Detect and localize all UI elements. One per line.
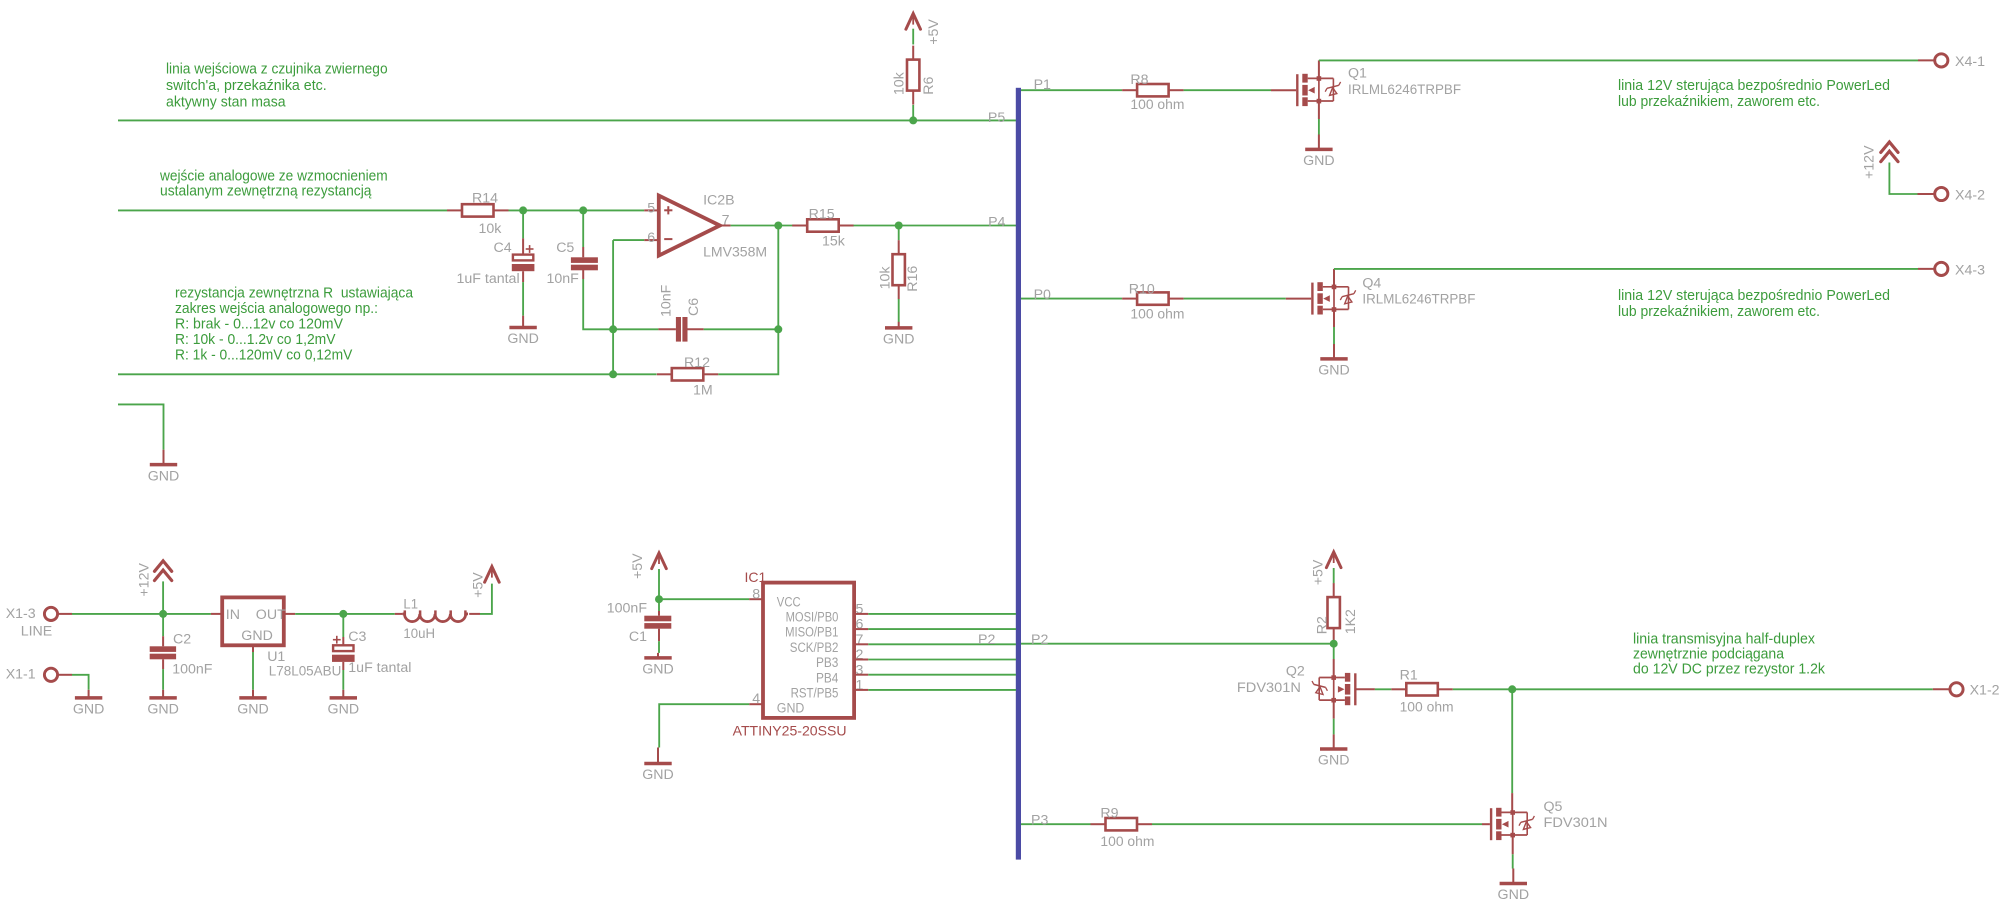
svg-text:aktywny stan masa: aktywny stan masa [166, 93, 286, 110]
svg-text:R10: R10 [1129, 281, 1155, 297]
svg-text:1M: 1M [693, 382, 713, 398]
resistor R14 [447, 191, 509, 237]
svg-text:GND: GND [642, 662, 674, 678]
wire R1 to X1-2 [1453, 688, 1950, 690]
svg-text:L1: L1 [403, 597, 418, 613]
svg-text:rezystancja zewnętrzna R usta: rezystancja zewnętrzna R ustawiająca [175, 285, 414, 302]
svg-text:ATTINY25-20SSU: ATTINY25-20SSU [733, 723, 847, 739]
ground under C1 [642, 653, 674, 678]
wire R8 to Q1 gate [1184, 89, 1297, 91]
wire C2 top leg [162, 614, 164, 646]
svg-text:X1-1: X1-1 [6, 667, 36, 683]
wire R16 top leg [898, 226, 900, 241]
net label P1 [1034, 77, 1051, 93]
svg-text:100nF: 100nF [172, 662, 213, 678]
connector X1-2 [1950, 683, 2000, 699]
wires IC1 pins 5,6,7,2,3,1 to bus [854, 614, 1016, 690]
voltage regulator U1 [222, 597, 341, 679]
wire +12V stem [162, 581, 164, 614]
wire net R12 line [118, 373, 657, 375]
svg-text:Q1: Q1 [1348, 66, 1367, 82]
annotation: 12V line description middle [1618, 287, 1890, 320]
svg-text:7: 7 [856, 632, 864, 648]
wire R6 bottom leg [912, 105, 914, 121]
transistor Q1 [1297, 66, 1461, 107]
svg-text:10k: 10k [479, 221, 503, 237]
supply +5V at C1 [630, 553, 667, 579]
svg-text:100 ohm: 100 ohm [1130, 97, 1184, 113]
svg-text:GND: GND [148, 468, 180, 484]
wire C5 bottom leg to feedback node [583, 269, 613, 330]
svg-text:C1: C1 [629, 629, 647, 645]
wire C1 bottom leg [658, 629, 660, 653]
wire VCC pin 8 [659, 598, 763, 600]
net label P3 [1031, 812, 1048, 828]
svg-text:1K2: 1K2 [1343, 609, 1359, 634]
junction at C2 tap [159, 610, 167, 618]
bus vertical [1016, 88, 1021, 860]
transistor Q4 [1312, 275, 1475, 314]
wire IC1 pin 4 to ground [659, 704, 763, 747]
svg-text:RST/PB5: RST/PB5 [791, 686, 839, 702]
transistor Q5 [1491, 799, 1607, 840]
net label P5 [988, 110, 1005, 126]
capacitor C2 [150, 632, 213, 678]
svg-text:P0: P0 [1034, 287, 1051, 303]
wire Q4 source leg [1333, 310, 1335, 344]
annotation: 12V line description top [1618, 77, 1890, 110]
wire junction to Q5 drain [1511, 689, 1513, 812]
svg-text:5: 5 [647, 201, 655, 217]
ground under Q4 [1318, 344, 1350, 379]
svg-text:R12: R12 [684, 355, 710, 371]
svg-text:X1-2: X1-2 [1970, 683, 2000, 699]
svg-text:R: 10k - 0...1.2v co 1,2mV: R: 10k - 0...1.2v co 1,2mV [175, 331, 336, 348]
connector X1-1 [6, 667, 58, 683]
wire Q5 source leg [1512, 836, 1514, 869]
wire +5V to VCC [658, 569, 660, 599]
supply +5V above R2 [1310, 552, 1341, 585]
wire net P2 right of bus [1021, 643, 1334, 645]
wire C1 top leg [658, 599, 660, 616]
net label P0 [1034, 287, 1051, 303]
wire C3 top leg [342, 614, 344, 645]
wire Q4 drain to X4-3 [1334, 269, 1935, 287]
svg-text:+12V: +12V [1861, 145, 1877, 179]
svg-text:2: 2 [856, 647, 864, 663]
annotation: external resistance description [175, 285, 414, 364]
svg-text:FDV301N: FDV301N [1237, 680, 1301, 696]
wire net P5 [118, 119, 1016, 121]
wire X1-3 to U1 IN [59, 613, 223, 615]
svg-text:Q2: Q2 [1286, 664, 1305, 680]
wire R9 to Q5 gate [1152, 823, 1490, 825]
wire R6 top leg [912, 29, 914, 45]
svg-text:100 ohm: 100 ohm [1130, 307, 1184, 323]
svg-text:15k: 15k [822, 234, 846, 250]
ground under Q5 [1498, 869, 1530, 904]
svg-text:X4-3: X4-3 [1955, 263, 1985, 279]
svg-text:1uF tantal: 1uF tantal [457, 271, 520, 287]
svg-text:LMV358M: LMV358M [703, 244, 767, 260]
svg-text:100 ohm: 100 ohm [1400, 700, 1454, 716]
wire Q1 drain to X4-1 [1319, 60, 1935, 78]
svg-text:GND: GND [1318, 363, 1350, 379]
svg-text:C5: C5 [556, 240, 574, 256]
wire C4 top leg [522, 210, 524, 254]
wire R16 bottom leg [898, 299, 900, 322]
connector X4-1 [1935, 54, 1985, 70]
svg-text:L78L05ABU: L78L05ABU [269, 663, 342, 679]
svg-text:Q5: Q5 [1544, 799, 1563, 815]
svg-text:GND: GND [1498, 887, 1530, 903]
svg-text:OUT: OUT [256, 607, 286, 623]
svg-text:5: 5 [856, 602, 864, 618]
wire R14 to op-amp pin 5 [509, 209, 645, 211]
svg-text:GND: GND [73, 702, 105, 718]
svg-text:8: 8 [752, 587, 760, 603]
svg-text:GND: GND [241, 628, 273, 644]
wire X1-1 to ground [59, 675, 89, 690]
svg-text:C2: C2 [173, 632, 191, 648]
wire stub to ground mid-left [118, 404, 164, 449]
wire R10 to Q4 gate [1184, 298, 1312, 300]
wire net P0 [1021, 298, 1122, 300]
wire R15 to bus P4 [854, 225, 1017, 227]
capacitor C5 [547, 240, 598, 287]
junction on P5 below R6 [909, 116, 917, 124]
op-amp IC2B [644, 192, 767, 260]
svg-text:R: brak - 0...12v co 120mV: R: brak - 0...12v co 120mV [175, 316, 343, 333]
wire R12 to output node corner [718, 226, 778, 375]
svg-text:1uF tantal: 1uF tantal [348, 660, 411, 676]
svg-text:100 ohm: 100 ohm [1100, 834, 1154, 850]
svg-text:GND: GND [883, 332, 915, 348]
svg-text:GND: GND [237, 702, 269, 718]
svg-text:C6: C6 [686, 298, 702, 316]
wire U1 GND leg [252, 645, 254, 690]
svg-text:C3: C3 [348, 629, 366, 645]
capacitor C6 [658, 284, 702, 341]
wire C4 bottom leg [522, 271, 524, 316]
wire C6 right leg [688, 328, 779, 330]
wire +5V to R2 [1333, 568, 1335, 583]
svg-text:GND: GND [1318, 753, 1350, 769]
svg-text:IRLML6246TRPBF: IRLML6246TRPBF [1348, 82, 1461, 98]
annotation: input line description [166, 60, 388, 110]
ground under Q1 [1303, 135, 1335, 170]
svg-text:linia 12V sterująca bezpośredn: linia 12V sterująca bezpośrednio PowerLe… [1618, 287, 1890, 304]
svg-text:R15: R15 [809, 207, 835, 223]
ground at mid-left stub [148, 450, 180, 485]
supply +12V left [137, 561, 172, 597]
svg-text:10nF: 10nF [547, 271, 580, 287]
svg-text:GND: GND [507, 331, 539, 347]
junction at C5 tap [579, 206, 587, 214]
svg-text:X4-2: X4-2 [1955, 188, 1985, 204]
svg-text:R1: R1 [1400, 667, 1418, 683]
annotation: analog input description [159, 168, 388, 200]
svg-text:do 12V DC przez rezystor 1.2k: do 12V DC przez rezystor 1.2k [1633, 660, 1825, 677]
resistor R9 [1091, 806, 1155, 851]
svg-text:P1: P1 [1034, 77, 1051, 93]
svg-text:VCC: VCC [777, 595, 801, 611]
svg-text:P5: P5 [988, 110, 1005, 126]
ground under C2 [147, 690, 179, 718]
resistor R12 [657, 355, 719, 398]
wire op-amp pin6 feedback vertical [613, 240, 644, 374]
capacitor C1 [607, 600, 672, 645]
svg-text:R: 1k - 0...120mV co 0,12mV: R: 1k - 0...120mV co 0,12mV [175, 347, 352, 364]
supply +5V at L1 [471, 567, 500, 598]
wire Q1 source leg [1318, 102, 1320, 135]
svg-text:zakres wejścia analogowego np.: zakres wejścia analogowego np.: [175, 300, 378, 317]
svg-text:PB4: PB4 [816, 670, 838, 686]
ground under C4 [507, 316, 539, 348]
svg-text:10uH: 10uH [403, 626, 435, 642]
resistor R6 [892, 46, 937, 105]
wire op-amp output net [720, 225, 793, 227]
resistor R1 [1391, 667, 1453, 715]
svg-text:P3: P3 [1031, 812, 1048, 828]
ground under Q2 [1318, 734, 1350, 768]
resistor R2 [1314, 583, 1359, 642]
svg-text:+5V: +5V [630, 553, 646, 579]
svg-text:P2: P2 [978, 632, 995, 648]
svg-text:PB3: PB3 [816, 655, 838, 671]
junction at R16 tap [895, 222, 903, 230]
svg-text:P4: P4 [988, 215, 1005, 231]
junction at C4 tap [519, 206, 527, 214]
wire Q2 gate to R1 [1357, 688, 1392, 690]
ground under C3 [328, 690, 360, 718]
wire C2 bottom leg [162, 659, 164, 690]
net label P2 left of bus [978, 632, 995, 648]
svg-text:100nF: 100nF [607, 600, 648, 616]
svg-text:IN: IN [226, 607, 240, 623]
junction at C3 tap [339, 610, 347, 618]
resistor R15 [792, 207, 854, 250]
ground under X1-1 [73, 690, 105, 718]
svg-text:6: 6 [856, 617, 864, 633]
junction at C1 tap [655, 595, 663, 603]
svg-text:1: 1 [856, 678, 864, 694]
wire +12V to X4-2 [1889, 163, 1934, 195]
svg-text:FDV301N: FDV301N [1544, 815, 1608, 831]
svg-text:GND: GND [147, 702, 179, 718]
junction feedback/R12 node [609, 370, 617, 378]
wire L1 to +5V [469, 584, 492, 614]
svg-text:GND: GND [1303, 153, 1335, 169]
svg-text:X1-3: X1-3 [6, 606, 36, 622]
supply +12V right [1861, 142, 1898, 179]
svg-text:lub przekaźnikiem, zaworem etc: lub przekaźnikiem, zaworem etc. [1618, 93, 1820, 110]
resistor R16 [877, 240, 921, 299]
junction C6/output vertical [774, 325, 782, 333]
annotation: half-duplex line description [1633, 630, 1825, 677]
resistor R10 [1122, 281, 1184, 322]
svg-text:R14: R14 [472, 191, 498, 207]
svg-text:IC1: IC1 [745, 569, 767, 585]
svg-text:P2: P2 [1031, 632, 1048, 648]
svg-text:SCK/PB2: SCK/PB2 [790, 640, 839, 656]
svg-text:MISO/PB1: MISO/PB1 [785, 625, 838, 641]
net label P4 [988, 215, 1005, 231]
svg-text:R8: R8 [1130, 72, 1148, 88]
svg-text:GND: GND [328, 702, 360, 718]
connector X4-2 [1935, 187, 1985, 203]
resistor R8 [1122, 72, 1184, 113]
svg-text:R9: R9 [1100, 806, 1118, 822]
svg-text:Q4: Q4 [1362, 275, 1381, 291]
svg-text:+5V: +5V [926, 19, 942, 45]
svg-text:10k: 10k [892, 71, 908, 95]
svg-text:6: 6 [647, 230, 655, 246]
wire net to R14 [118, 209, 447, 211]
svg-text:+5V: +5V [1310, 559, 1326, 585]
svg-text:+5V: +5V [471, 572, 487, 598]
svg-text:IRLML6246TRPBF: IRLML6246TRPBF [1362, 292, 1475, 308]
svg-text:ustalanym zewnętrzną rezystanc: ustalanym zewnętrzną rezystancją [160, 183, 372, 200]
junction output/feedback [774, 222, 782, 230]
supply +5V above R6 [906, 14, 942, 45]
wire U1 OUT to L1 [284, 613, 403, 615]
svg-text:switch'a, przekaźnika etc.: switch'a, przekaźnika etc. [166, 77, 327, 94]
svg-text:R6: R6 [921, 77, 937, 95]
wire net P1 [1021, 89, 1122, 91]
junction feedback/C6 node [609, 325, 617, 333]
svg-text:linia wejściowa z czujnika zwi: linia wejściowa z czujnika zwiernego [166, 60, 388, 77]
connector X1-3 [6, 606, 58, 640]
svg-text:C4: C4 [494, 240, 512, 256]
svg-text:R16: R16 [905, 266, 921, 292]
connector X4-3 [1935, 262, 1985, 278]
svg-text:GND: GND [777, 701, 805, 717]
svg-text:GND: GND [642, 767, 674, 783]
ground under U1 [237, 690, 269, 718]
svg-text:MOSI/PB0: MOSI/PB0 [786, 610, 839, 626]
wire C3 bottom leg [342, 662, 344, 690]
svg-text:R2: R2 [1314, 616, 1330, 634]
svg-text:LINE: LINE [21, 623, 53, 639]
capacitor C3 [332, 629, 411, 676]
microcontroller IC1 [733, 569, 864, 739]
wire Q2 source leg [1333, 701, 1335, 734]
svg-text:3: 3 [856, 662, 864, 678]
svg-text:IC2B: IC2B [703, 192, 735, 208]
wire net P3 [1021, 823, 1091, 825]
junction P2/R2/Q2 [1330, 640, 1338, 648]
junction R1/Q5 tap [1508, 685, 1516, 693]
ground under R16 [883, 322, 915, 348]
wire C5 top leg [582, 210, 584, 257]
svg-text:+12V: +12V [137, 563, 153, 597]
wire R2 to Q2 drain [1333, 644, 1335, 678]
inductor L1 [403, 597, 468, 643]
svg-text:lub przekaźnikiem, zaworem etc: lub przekaźnikiem, zaworem etc. [1618, 303, 1820, 320]
svg-text:X4-1: X4-1 [1955, 54, 1985, 70]
ground at IC1 pin 4 [642, 748, 674, 784]
svg-text:10nF: 10nF [658, 284, 674, 317]
svg-text:10k: 10k [877, 266, 893, 290]
wire C6 left leg [613, 328, 676, 330]
svg-text:linia 12V sterująca bezpośredn: linia 12V sterująca bezpośrednio PowerLe… [1618, 77, 1890, 94]
capacitor C4 [457, 240, 535, 287]
net label P2 right of bus [1031, 632, 1048, 648]
transistor Q2 [1237, 664, 1355, 706]
